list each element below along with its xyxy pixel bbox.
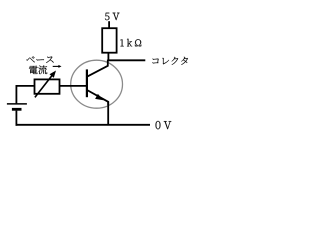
emitter arrowhead <box>95 94 103 100</box>
wire from R1 bottom to collector node <box>107 53 109 61</box>
wire 0V bottom rail <box>16 124 151 126</box>
wire battery + up and right to VR1 <box>16 86 34 104</box>
wire battery - down to 0V rail <box>15 111 17 126</box>
label 5 V <box>105 13 120 20</box>
wire collector rail to the right <box>108 59 146 61</box>
resistor R1 1kΩ (box) <box>102 28 116 53</box>
label ベース (base) <box>26 56 53 62</box>
base current direction arrow line <box>53 65 60 67</box>
label 電流 (current) <box>29 66 47 75</box>
label 0 V <box>156 121 172 129</box>
battery B1 negative plate (short thick) <box>12 108 22 111</box>
variable resistor VR1 (box) <box>35 79 60 93</box>
variable resistor VR1 arrow line <box>35 75 53 98</box>
wire VR1 to base of Q1 <box>60 85 89 87</box>
transistor Q1 emitter lead <box>87 90 108 105</box>
label コレクタ (collector) <box>152 57 188 65</box>
wire emitter down to 0V rail <box>107 102 109 125</box>
value label 1 k Ω <box>120 39 141 47</box>
transistor Q1 base bar <box>86 69 88 97</box>
transistor Q1 collector lead <box>87 60 108 77</box>
battery B1 positive plate (long) <box>7 103 27 105</box>
transistor Q1 circle <box>71 60 123 108</box>
variable resistor VR1 arrowhead <box>50 71 57 78</box>
base current direction arrowhead <box>58 65 61 68</box>
wire from 5V supply down to resistor R1 top <box>108 21 110 29</box>
